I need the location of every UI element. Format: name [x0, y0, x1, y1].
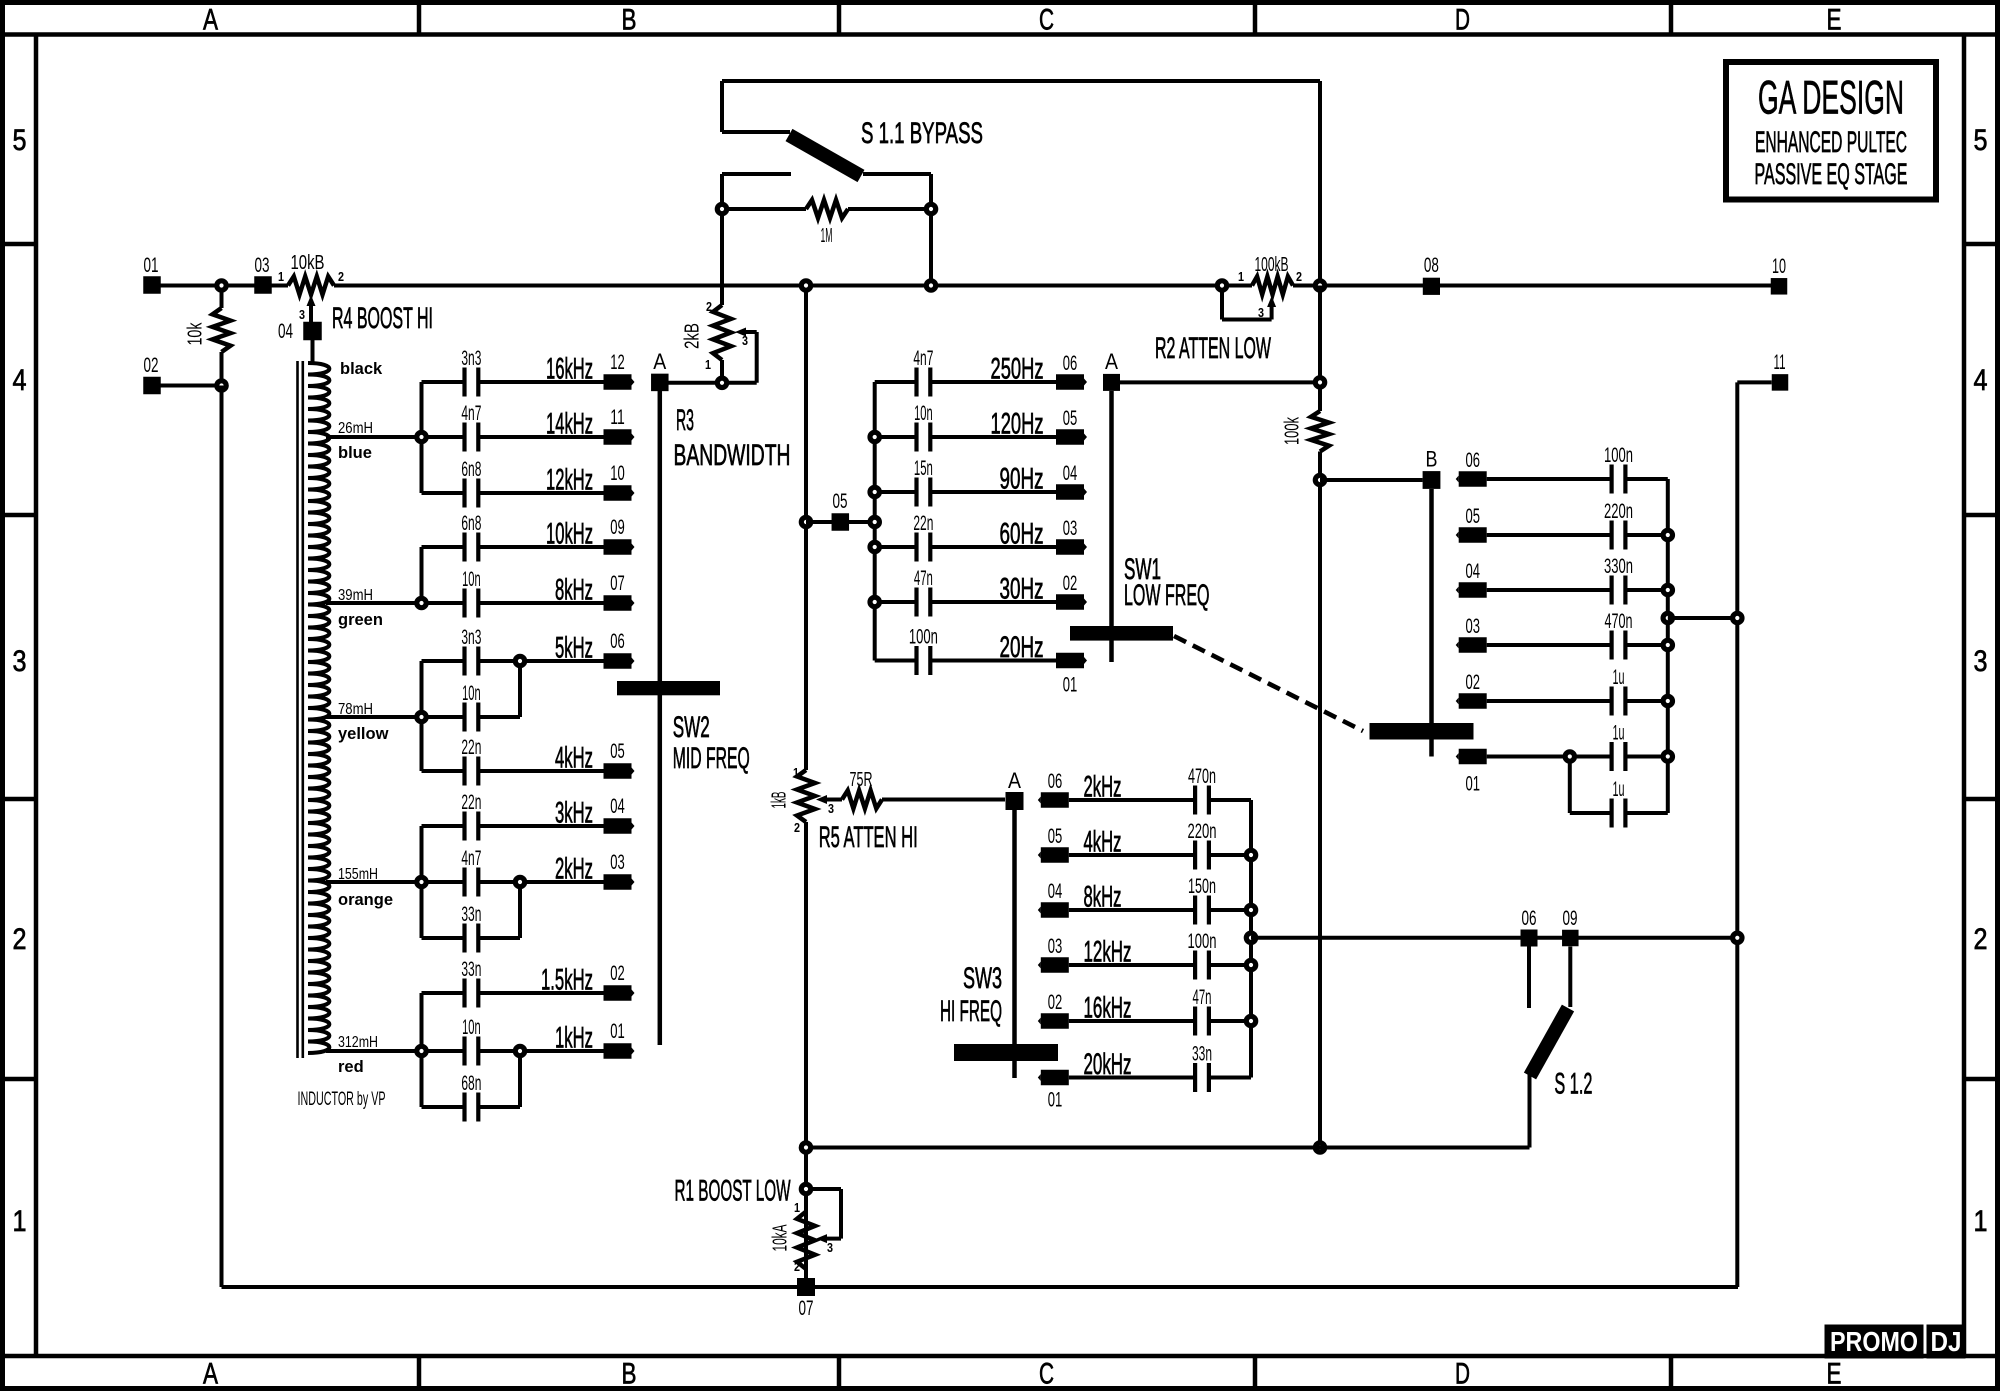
- pad 05: [1459, 527, 1487, 543]
- pad 05: [604, 763, 632, 779]
- junction: [417, 877, 426, 886]
- wire bank to right column: [1668, 616, 1738, 620]
- svg-text:10n: 10n: [914, 402, 933, 425]
- pad 02: [1056, 594, 1084, 610]
- pad 04: [1041, 902, 1069, 918]
- svg-text:330n: 330n: [1604, 555, 1633, 578]
- potentiometer R1 10kA: [801, 1184, 810, 1193]
- svg-text:11: 11: [1774, 351, 1786, 374]
- junction: [870, 542, 879, 551]
- svg-text:02: 02: [1063, 572, 1078, 595]
- svg-text:R1 BOOST LOW: R1 BOOST LOW: [675, 1175, 791, 1208]
- junction: [870, 517, 879, 526]
- wire 1u parallel branch: [1568, 757, 1572, 814]
- svg-text:INDUCTOR by VP: INDUCTOR by VP: [298, 1089, 386, 1110]
- capacitor 4n7 (14kHz): [422, 435, 465, 439]
- switch SW1 rotor A: [1103, 374, 1120, 391]
- svg-text:10k: 10k: [185, 322, 207, 346]
- svg-text:red: red: [338, 1058, 364, 1076]
- wire pad02 to junction: [152, 384, 222, 388]
- svg-text:01: 01: [1048, 1089, 1063, 1112]
- svg-text:yellow: yellow: [338, 725, 389, 743]
- svg-text:1: 1: [794, 1200, 800, 1215]
- switch SW2 rotor: [651, 374, 669, 392]
- svg-text:5kHz: 5kHz: [555, 632, 593, 665]
- svg-text:100kB: 100kB: [1255, 254, 1289, 276]
- svg-text:ENHANCED PULTEC: ENHANCED PULTEC: [1755, 126, 1907, 159]
- capacitor 1u: [1570, 811, 1612, 815]
- svg-text:12kHz: 12kHz: [546, 464, 593, 497]
- junction: [1663, 640, 1672, 649]
- svg-text:MID FREQ: MID FREQ: [673, 742, 750, 775]
- svg-text:2: 2: [338, 269, 344, 284]
- svg-text:B: B: [622, 1358, 637, 1391]
- junction: [1733, 933, 1742, 942]
- svg-text:03: 03: [610, 851, 625, 874]
- svg-text:33n: 33n: [461, 903, 481, 926]
- svg-text:12: 12: [610, 351, 625, 374]
- svg-text:04: 04: [278, 320, 293, 343]
- pad 01: [1041, 1070, 1069, 1086]
- capacitor 3n3 (5kHz): [422, 659, 465, 663]
- pad 10: [1771, 278, 1788, 295]
- junction: [1315, 281, 1324, 290]
- pad 04: [604, 818, 632, 834]
- svg-text:04: 04: [1048, 880, 1063, 903]
- svg-text:04: 04: [1063, 462, 1078, 485]
- svg-text:02: 02: [144, 354, 159, 377]
- pad 05: [1041, 847, 1069, 863]
- wire right bank bus: [1666, 479, 1670, 813]
- wire inductor taps: [326, 435, 422, 439]
- svg-text:03: 03: [1063, 517, 1078, 540]
- svg-text:10: 10: [610, 462, 625, 485]
- svg-text:4: 4: [13, 364, 27, 397]
- wire main top bus: [152, 284, 288, 288]
- svg-text:26mH: 26mH: [338, 420, 373, 437]
- svg-text:5: 5: [1974, 124, 1988, 157]
- svg-text:33n: 33n: [1192, 1043, 1212, 1066]
- wire pad11 to right column: [1737, 380, 1771, 384]
- capacitor 47n (30Hz): [875, 600, 917, 604]
- junction: [870, 432, 879, 441]
- capacitor 4n7 (2kHz): [422, 880, 465, 884]
- svg-text:250Hz: 250Hz: [991, 353, 1044, 386]
- wire SW2 sub-branches: [518, 661, 522, 717]
- svg-text:R5 ATTEN HI: R5 ATTEN HI: [819, 821, 918, 854]
- svg-text:04: 04: [610, 795, 625, 818]
- pad 06: [1459, 471, 1487, 487]
- svg-text:S 1.2: S 1.2: [1554, 1068, 1592, 1101]
- svg-text:470n: 470n: [1188, 765, 1216, 788]
- capacitor 4n7 (250Hz): [875, 380, 917, 384]
- svg-text:10n: 10n: [462, 568, 481, 591]
- wire SW3 right bus: [1249, 800, 1253, 1078]
- coupling dashed link SW1: [1174, 636, 1363, 731]
- svg-text:1u: 1u: [1613, 666, 1625, 689]
- pad 06: [604, 653, 632, 669]
- wire center vertical: [804, 286, 808, 771]
- junction: [1663, 752, 1672, 761]
- wire pad05 to C-bank: [806, 520, 875, 524]
- svg-text:B: B: [622, 4, 637, 37]
- svg-text:1: 1: [1974, 1205, 1988, 1238]
- svg-text:75R: 75R: [850, 769, 873, 791]
- svg-text:47n: 47n: [1193, 986, 1212, 1009]
- pad 02: [1041, 1013, 1069, 1029]
- pad 11: [1772, 374, 1789, 391]
- junction: [417, 598, 426, 607]
- resistor 100k: [1311, 411, 1329, 452]
- svg-text:2kHz: 2kHz: [555, 853, 593, 886]
- svg-text:4: 4: [1974, 364, 1988, 397]
- svg-text:S 1.1 BYPASS: S 1.1 BYPASS: [861, 117, 983, 150]
- capacitor 22n (60Hz): [875, 545, 917, 549]
- svg-text:green: green: [338, 611, 383, 629]
- svg-text:06: 06: [1465, 449, 1480, 472]
- junction: [1315, 378, 1324, 387]
- svg-text:1: 1: [1238, 269, 1244, 284]
- svg-text:2kB: 2kB: [682, 323, 704, 349]
- wire A to R3: [669, 381, 757, 385]
- pad 06: [1056, 374, 1084, 390]
- junction: [515, 1046, 524, 1055]
- svg-text:05: 05: [610, 740, 625, 763]
- pad 03: [1041, 957, 1069, 973]
- svg-text:C: C: [1039, 1358, 1054, 1391]
- svg-text:60Hz: 60Hz: [1000, 518, 1044, 551]
- capacitor 10n (shunt): [422, 715, 465, 719]
- pad 10: [604, 485, 632, 501]
- svg-text:3: 3: [299, 307, 305, 322]
- svg-text:10kA: 10kA: [769, 1224, 791, 1251]
- pad 01: [1459, 749, 1487, 765]
- junction: [1315, 475, 1324, 484]
- svg-text:5: 5: [13, 124, 27, 157]
- svg-text:150n: 150n: [1188, 875, 1216, 898]
- svg-text:orange: orange: [338, 891, 393, 909]
- svg-text:1u: 1u: [1613, 778, 1625, 801]
- svg-text:A: A: [653, 349, 666, 374]
- pad 07: [797, 1278, 815, 1296]
- svg-text:2: 2: [1974, 923, 1988, 956]
- wire ground loop left/bottom: [220, 386, 224, 1288]
- pad 08: [1423, 278, 1440, 295]
- junction: [515, 877, 524, 886]
- switch S1.1 blade: [789, 135, 861, 176]
- junction: [1663, 530, 1672, 539]
- svg-text:8kHz: 8kHz: [555, 574, 593, 607]
- svg-text:R2 ATTEN LOW: R2 ATTEN LOW: [1155, 332, 1271, 365]
- svg-text:R4 BOOST HI: R4 BOOST HI: [332, 302, 433, 335]
- wire 100k node to B: [1320, 478, 1423, 482]
- svg-text:HI FREQ: HI FREQ: [940, 995, 1002, 1028]
- junction: [217, 281, 226, 290]
- svg-text:01: 01: [144, 254, 159, 277]
- wire pad04 to inductor: [311, 340, 315, 364]
- svg-text:1.5kHz: 1.5kHz: [541, 964, 593, 997]
- svg-text:10kB: 10kB: [291, 252, 325, 274]
- svg-text:33n: 33n: [461, 958, 481, 981]
- junction: [417, 1046, 426, 1055]
- pad 04: [303, 322, 322, 341]
- wire loop right vertical: [1318, 81, 1322, 286]
- pad 03: [1459, 637, 1487, 653]
- svg-text:100n: 100n: [1604, 444, 1633, 467]
- junction: [417, 432, 426, 441]
- svg-text:B: B: [1426, 447, 1438, 472]
- svg-text:09: 09: [610, 516, 625, 539]
- potentiometer R3 2kB: [720, 174, 724, 305]
- svg-text:22n: 22n: [461, 736, 481, 759]
- svg-text:DJ: DJ: [1931, 1326, 1962, 1357]
- svg-text:A: A: [1008, 768, 1021, 793]
- svg-text:47n: 47n: [914, 567, 933, 590]
- pad 05: [1056, 429, 1084, 445]
- pad 11: [604, 429, 632, 445]
- wire bypass top loop: [722, 79, 1320, 83]
- pad 04: [1056, 484, 1084, 500]
- svg-text:14kHz: 14kHz: [546, 408, 593, 441]
- pad 12: [604, 374, 632, 390]
- svg-text:6n8: 6n8: [461, 458, 481, 481]
- junction: [1315, 1143, 1324, 1152]
- svg-text:3n3: 3n3: [461, 626, 481, 649]
- potentiometer R2 100kB: [1252, 277, 1293, 295]
- svg-text:E: E: [1827, 4, 1842, 37]
- svg-text:10n: 10n: [462, 1016, 481, 1039]
- svg-text:03: 03: [255, 254, 270, 277]
- junction: [801, 281, 810, 290]
- pad 02: [1459, 693, 1487, 709]
- capacitor 33n (1.5kHz): [422, 991, 465, 995]
- svg-text:2: 2: [794, 820, 800, 835]
- resistor 10k: [220, 286, 224, 309]
- svg-text:20Hz: 20Hz: [1000, 631, 1044, 664]
- svg-text:6n8: 6n8: [461, 512, 481, 535]
- svg-text:11: 11: [610, 406, 625, 429]
- svg-text:04: 04: [1465, 560, 1480, 583]
- junction: [1565, 752, 1574, 761]
- capacitor 22n (4kHz): [422, 769, 465, 773]
- pad 04: [1459, 582, 1487, 598]
- svg-text:06: 06: [610, 630, 625, 653]
- junction: [870, 597, 879, 606]
- svg-text:22n: 22n: [461, 791, 481, 814]
- capacitor 6n8 (10kHz): [422, 545, 465, 549]
- svg-text:black: black: [340, 360, 383, 378]
- junction: [417, 712, 426, 721]
- svg-text:3kHz: 3kHz: [555, 797, 593, 830]
- junction: [217, 381, 226, 390]
- svg-text:1: 1: [793, 765, 799, 780]
- wire 100k column: [1318, 286, 1322, 412]
- svg-text:3n3: 3n3: [461, 347, 481, 370]
- svg-text:07: 07: [610, 572, 625, 595]
- pad 01: [604, 1043, 632, 1059]
- capacitor 10n (120Hz): [875, 435, 917, 439]
- svg-text:1: 1: [13, 1205, 27, 1238]
- switch SW1 rotor B: [1423, 471, 1441, 489]
- svg-text:02: 02: [1048, 991, 1063, 1014]
- svg-text:1kHz: 1kHz: [555, 1022, 593, 1055]
- svg-text:02: 02: [1465, 671, 1480, 694]
- svg-text:01: 01: [610, 1020, 625, 1043]
- svg-text:4n7: 4n7: [461, 402, 481, 425]
- pad 06: [1041, 792, 1069, 808]
- svg-text:16kHz: 16kHz: [546, 353, 593, 386]
- inductor core: [296, 361, 299, 1058]
- svg-text:05: 05: [1063, 407, 1078, 430]
- junction: [1663, 613, 1672, 622]
- junction: [515, 656, 524, 665]
- svg-text:D: D: [1455, 1358, 1470, 1391]
- svg-text:220n: 220n: [1604, 500, 1633, 523]
- junction: [1663, 696, 1672, 705]
- svg-text:06: 06: [1048, 770, 1063, 793]
- svg-text:3: 3: [828, 801, 834, 816]
- pad 01: [1056, 653, 1084, 669]
- wire SW3 bus to S1.2 row: [1251, 936, 1737, 940]
- svg-text:1: 1: [278, 269, 284, 284]
- svg-text:09: 09: [1563, 907, 1578, 930]
- svg-text:05: 05: [1465, 505, 1480, 528]
- svg-text:15n: 15n: [914, 457, 933, 480]
- pad 05: [832, 513, 850, 531]
- svg-text:01: 01: [1465, 773, 1480, 796]
- svg-text:22n: 22n: [913, 512, 933, 535]
- capacitor 33n (shunt): [422, 936, 465, 940]
- svg-text:PROMO: PROMO: [1830, 1326, 1918, 1357]
- pad 07: [604, 595, 632, 611]
- svg-text:06: 06: [1063, 352, 1078, 375]
- svg-text:30Hz: 30Hz: [1000, 573, 1044, 606]
- svg-text:C: C: [1039, 4, 1054, 37]
- junction: [1246, 905, 1255, 914]
- svg-text:D: D: [1455, 4, 1470, 37]
- terminal: [717, 204, 726, 213]
- svg-text:312mH: 312mH: [338, 1034, 378, 1051]
- capacitor 22n (3kHz): [422, 824, 465, 828]
- capacitor 10n (8kHz): [422, 601, 465, 605]
- capacitor 3n3 (16kHz): [422, 380, 465, 384]
- svg-text:R3: R3: [676, 404, 694, 437]
- junction: [801, 1143, 810, 1152]
- logo PROMO DJ: [1825, 1325, 1924, 1359]
- svg-text:10n: 10n: [462, 682, 481, 705]
- svg-text:220n: 220n: [1188, 820, 1217, 843]
- junction: [1246, 1016, 1255, 1025]
- svg-text:4n7: 4n7: [913, 347, 933, 370]
- capacitor 15n (90Hz): [875, 490, 917, 494]
- svg-text:A: A: [203, 1358, 218, 1391]
- svg-text:GA DESIGN: GA DESIGN: [1758, 71, 1904, 124]
- capacitor 68n (shunt): [422, 1105, 465, 1109]
- svg-text:01: 01: [1063, 674, 1078, 697]
- svg-text:03: 03: [1465, 615, 1480, 638]
- svg-text:1kB: 1kB: [768, 792, 790, 809]
- svg-text:4kHz: 4kHz: [555, 742, 593, 775]
- svg-text:100k: 100k: [1282, 416, 1304, 445]
- svg-text:SW2: SW2: [673, 711, 710, 744]
- switch SW3 rotor A: [1006, 792, 1024, 810]
- wire S1.2 to bottom row: [806, 1146, 1530, 1150]
- pad 03: [1056, 539, 1084, 555]
- svg-text:2: 2: [13, 923, 27, 956]
- svg-text:120Hz: 120Hz: [991, 408, 1044, 441]
- inductor winding L1: [308, 363, 329, 1053]
- wire bypass lower contact: [722, 172, 791, 176]
- resistor 75R on wiper: [827, 798, 842, 802]
- svg-text:06: 06: [1522, 907, 1537, 930]
- junction: [1246, 933, 1255, 942]
- pad 09: [1562, 930, 1579, 947]
- title block GA DESIGN: [1726, 62, 1936, 200]
- wire SW2 bank left bus: [420, 382, 424, 493]
- svg-text:A: A: [203, 4, 218, 37]
- svg-text:100n: 100n: [909, 626, 938, 649]
- svg-text:68n: 68n: [461, 1072, 481, 1095]
- junction: [1663, 585, 1672, 594]
- terminal: [717, 378, 726, 387]
- svg-text:E: E: [1827, 1358, 1842, 1391]
- junction: [926, 204, 935, 213]
- svg-text:100n: 100n: [1188, 930, 1217, 953]
- resistor 1M: [727, 207, 806, 211]
- pad 03: [604, 874, 632, 890]
- pad 06: [1521, 930, 1538, 947]
- svg-text:LOW FREQ: LOW FREQ: [1124, 579, 1210, 612]
- svg-text:08: 08: [1424, 254, 1439, 277]
- svg-text:1: 1: [705, 357, 711, 372]
- svg-text:PASSIVE EQ STAGE: PASSIVE EQ STAGE: [1755, 158, 1908, 191]
- svg-text:4n7: 4n7: [461, 847, 481, 870]
- junction: [1733, 613, 1742, 622]
- pad 02: [143, 377, 161, 395]
- junction: [870, 487, 879, 496]
- wire mid bank left bus: [873, 382, 877, 661]
- svg-text:10kHz: 10kHz: [546, 518, 593, 551]
- svg-text:1u: 1u: [1613, 722, 1625, 745]
- svg-text:1M: 1M: [821, 225, 833, 247]
- svg-text:2: 2: [706, 299, 712, 314]
- capacitor 6n8 (12kHz): [422, 491, 465, 495]
- svg-text:10: 10: [1772, 255, 1786, 278]
- svg-text:BANDWIDTH: BANDWIDTH: [674, 439, 791, 472]
- junction: [801, 517, 810, 526]
- svg-text:07: 07: [799, 1297, 814, 1320]
- svg-text:3: 3: [1974, 645, 1988, 678]
- junction: [1246, 850, 1255, 859]
- wire SW1-A to 100k node: [1120, 380, 1320, 384]
- svg-text:05: 05: [1048, 825, 1063, 848]
- svg-text:05: 05: [833, 490, 848, 513]
- svg-text:470n: 470n: [1605, 610, 1633, 633]
- svg-text:A: A: [1105, 349, 1118, 374]
- svg-text:3: 3: [13, 645, 27, 678]
- capacitor 100n (20Hz): [875, 659, 917, 663]
- pad 02: [604, 985, 632, 1001]
- junction: [1246, 960, 1255, 969]
- terminal: [1217, 281, 1226, 290]
- svg-text:blue: blue: [338, 444, 372, 462]
- switch S1.2: [1527, 947, 1531, 1009]
- svg-text:90Hz: 90Hz: [1000, 463, 1044, 496]
- svg-text:SW3: SW3: [963, 962, 1002, 995]
- svg-text:02: 02: [610, 962, 625, 985]
- svg-text:2: 2: [794, 1259, 800, 1274]
- svg-text:2: 2: [1296, 269, 1302, 284]
